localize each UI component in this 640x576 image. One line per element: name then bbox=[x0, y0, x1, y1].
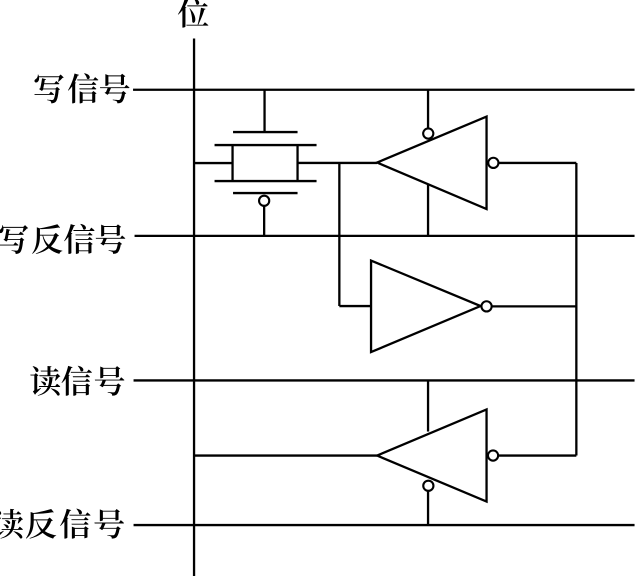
wire: top gate of transmission gate to write line bbox=[263, 90, 265, 132]
transistor Q1 top gate bar bbox=[233, 131, 297, 133]
wire: U1 lower enable to write-inverse line bbox=[427, 184, 429, 236]
net: write signal line (写信号) bbox=[133, 89, 635, 91]
wire: U1 output to feedback line bbox=[499, 162, 576, 164]
inversion bubble U3 lower enable bbox=[423, 481, 433, 491]
inversion bubble U1 output bbox=[488, 158, 498, 168]
net: read signal line (读信号) bbox=[134, 379, 635, 381]
transmission gate body right side bbox=[296, 145, 298, 181]
transmission gate body left side bbox=[231, 145, 233, 181]
wire: to U2 input bbox=[339, 305, 371, 307]
wire: read line to U3 upper enable bbox=[427, 380, 429, 431]
inversion bubble U3 output bbox=[488, 450, 498, 460]
inversion bubble U2 output bbox=[481, 301, 491, 311]
wire: bit line to U3 output apex bbox=[194, 454, 377, 456]
wire: bottom gate bubble to write-inverse line bbox=[263, 206, 265, 236]
wire: U2 output to feedback line bbox=[492, 305, 576, 307]
wire: write line to U1 enable bubble bbox=[427, 90, 429, 129]
label 读信号 (read signal) bbox=[30, 366, 124, 396]
label 写反信号 (write-inverse signal) bbox=[0, 224, 125, 254]
wire: U1 input node down to U2 input bbox=[338, 163, 340, 306]
label 读反信号 (read-inverse signal) bbox=[0, 509, 124, 539]
net: write-inverse signal line (写反信号) bbox=[135, 235, 635, 237]
transistor Q1 top channel bar bbox=[215, 144, 317, 146]
inversion bubble on transmission gate bottom gate bbox=[259, 196, 269, 206]
wire: bit line to transmission gate left terminal bbox=[194, 162, 233, 164]
transistor Q2 bottom gate bar bbox=[233, 192, 297, 194]
label 位 (bit line) bbox=[178, 0, 209, 28]
inversion bubble U1 enable (top) bbox=[423, 128, 433, 138]
wire: transmission gate right terminal to tri-state buffer U1 input bbox=[298, 162, 378, 164]
net: feedback vertical line bbox=[575, 163, 577, 456]
op-amp U3 tri-state buffer triangle (points left) bbox=[377, 409, 487, 501]
transistor Q2 bottom channel bar bbox=[215, 180, 317, 182]
label 写信号 (write signal) bbox=[34, 73, 129, 103]
net: read-inverse signal line (读反信号) bbox=[134, 524, 635, 526]
op-amp U2 inverter triangle (points right) bbox=[371, 261, 481, 353]
wire: U3 input from feedback line bbox=[499, 454, 576, 456]
op-amp U1 tri-state buffer triangle (points left) bbox=[377, 117, 487, 210]
wire: U3 lower enable bubble to read-inverse line bbox=[427, 492, 429, 526]
net: bit line (位线) vertical bbox=[193, 39, 195, 576]
